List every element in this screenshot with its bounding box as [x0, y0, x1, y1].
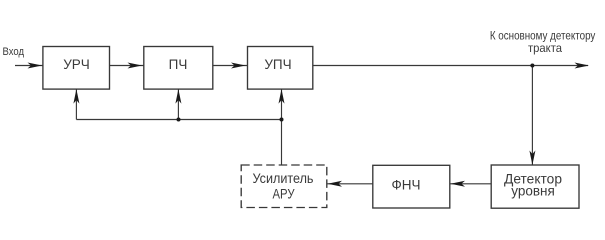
svg-text:тракта: тракта	[528, 41, 562, 55]
block PCh (mixer/IF converter)	[144, 47, 213, 90]
arrowhead output	[575, 63, 590, 69]
block FNCh (low-pass filter)	[373, 165, 450, 208]
arrowhead into AGC amplifier	[328, 181, 343, 187]
wire feedback to PCh	[177, 89, 179, 119]
wire FNCh to AGC amplifier	[327, 183, 373, 185]
arrowhead feedback into PCh	[175, 89, 181, 104]
junction dot feedback bus at UPCh	[280, 118, 284, 122]
wire down to level detector	[531, 66, 533, 166]
arrowhead URCh to PCh	[128, 63, 143, 69]
wire feedback to UPCh	[281, 89, 283, 119]
svg-text:АРУ: АРУ	[273, 187, 295, 202]
block URCh (RF amplifier)	[43, 47, 110, 90]
block level detector	[491, 165, 579, 208]
svg-text:ПЧ: ПЧ	[169, 57, 188, 72]
arrowhead input	[28, 63, 43, 69]
arrowhead into FNCh	[451, 181, 466, 187]
block AGC amplifier (dashed)	[241, 165, 327, 208]
wire AGC amplifier up	[281, 120, 283, 166]
block UPCh (IF amplifier)	[248, 47, 313, 90]
svg-text:ФНЧ: ФНЧ	[391, 178, 420, 193]
wire level detector to FNCh	[450, 183, 491, 185]
junction dot on output line	[530, 64, 534, 68]
svg-text:Усилитель: Усилитель	[253, 171, 314, 186]
wire feedback to URCh	[75, 89, 77, 119]
svg-text:уровня: уровня	[511, 184, 555, 199]
wire PCh to UPCh	[213, 65, 248, 67]
wire URCh to PCh	[110, 65, 144, 67]
svg-text:УРЧ: УРЧ	[63, 57, 90, 72]
svg-text:Вход: Вход	[3, 46, 25, 58]
arrowhead into level detector	[529, 151, 535, 166]
wire input to URCh	[15, 65, 43, 67]
wire feedback bus	[76, 119, 281, 121]
arrowhead feedback into UPCh	[279, 89, 285, 104]
arrowhead feedback into URCh	[73, 89, 79, 104]
wire UPCh to output	[313, 65, 588, 67]
junction dot feedback bus at PCh	[177, 118, 181, 122]
svg-text:УПЧ: УПЧ	[264, 57, 291, 72]
arrowhead PCh to UPCh	[231, 63, 246, 69]
